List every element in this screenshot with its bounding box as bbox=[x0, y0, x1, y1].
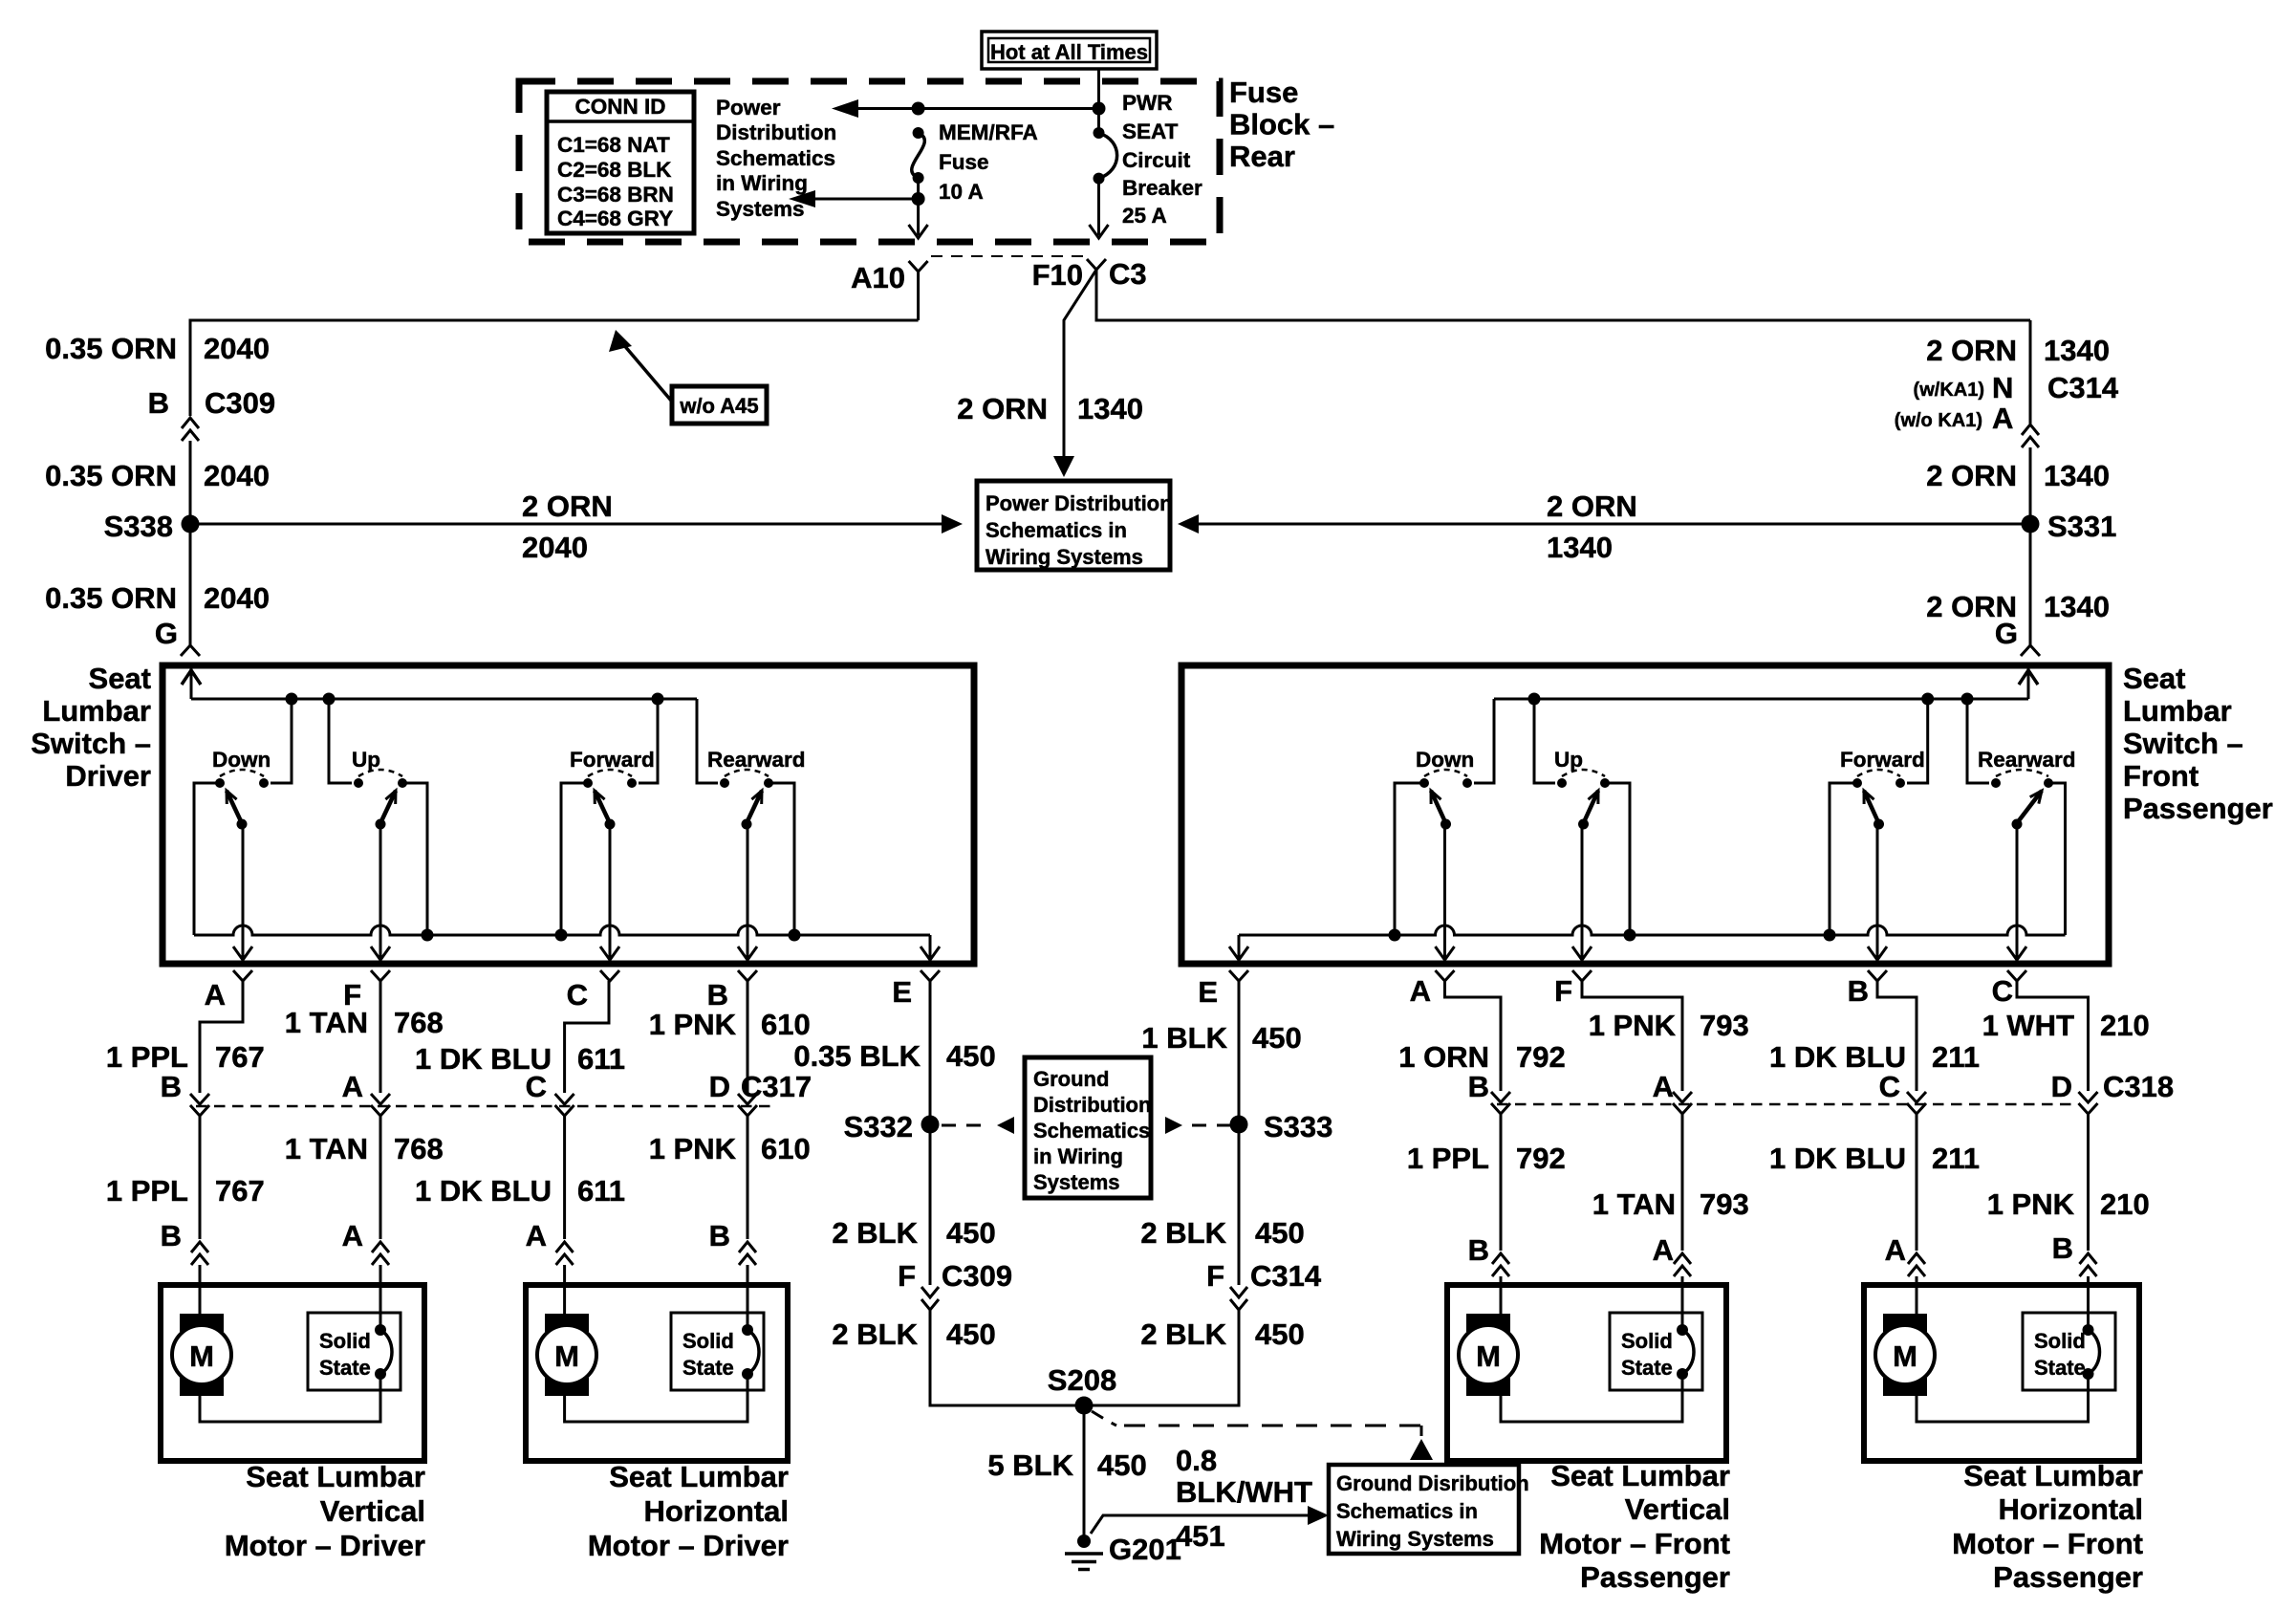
svg-text:1 PPL: 1 PPL bbox=[1407, 1142, 1489, 1175]
svg-text:C: C bbox=[526, 1070, 547, 1103]
svg-text:0.8: 0.8 bbox=[1176, 1444, 1217, 1477]
svg-text:Horizontal: Horizontal bbox=[643, 1494, 789, 1528]
wire E exit from bottom bus right end bbox=[929, 935, 932, 958]
svg-text:C2=68 BLK: C2=68 BLK bbox=[557, 158, 672, 182]
svg-text:C4=68 GRY: C4=68 GRY bbox=[557, 207, 673, 230]
svg-text:2040: 2040 bbox=[204, 459, 270, 492]
svg-text:Systems: Systems bbox=[1033, 1170, 1120, 1194]
svg-text:Power Distribution: Power Distribution bbox=[986, 491, 1173, 515]
fuse MEM/RFA 10A symbol bbox=[913, 127, 924, 139]
motor brushes bbox=[1883, 1314, 1927, 1332]
svg-text:2040: 2040 bbox=[522, 531, 588, 564]
svg-text:Schematics: Schematics bbox=[716, 146, 835, 170]
svg-text:M: M bbox=[1476, 1339, 1501, 1373]
arrowhead down into Power Distribution box bbox=[1053, 456, 1074, 477]
connector fork below passenger box x=2110 bbox=[2007, 970, 2026, 981]
svg-text:M: M bbox=[189, 1339, 214, 1373]
arrowhead right at Ground Disribution box bbox=[1308, 1506, 1329, 1525]
svg-text:Systems: Systems bbox=[716, 197, 805, 221]
circuit breaker PWR SEAT 25A symbol bbox=[1094, 127, 1105, 139]
switch Rearward pivot bbox=[2012, 819, 2023, 830]
motor bottom return wire bbox=[200, 1374, 380, 1422]
switch box inner bottom bus (with hops) bbox=[1239, 925, 2066, 935]
wire left rail C309 to G bbox=[189, 441, 192, 645]
dashed wire 451 from S208 to Ground Disribution pointer bbox=[1092, 1411, 1116, 1426]
svg-text:450: 450 bbox=[1252, 1021, 1302, 1055]
C318 crossing arrow+fork x=1570 bbox=[1491, 1092, 1510, 1102]
Seat Lumbar Horizontal Motor - Front Passenger box bbox=[1864, 1285, 2139, 1461]
switch box inner top bus bbox=[1494, 698, 2028, 701]
svg-text:10 A: 10 A bbox=[939, 180, 984, 204]
motor brushes bbox=[1466, 1314, 1510, 1332]
connector fork below passenger box x=1511.5 bbox=[1436, 970, 1455, 981]
svg-text:Forward: Forward bbox=[1840, 748, 1925, 772]
svg-text:210: 210 bbox=[2100, 1187, 2150, 1221]
svg-text:Lumbar: Lumbar bbox=[42, 694, 151, 728]
wire top bus right corner down to Rearward left contact bbox=[697, 699, 718, 783]
svg-text:1 PNK: 1 PNK bbox=[649, 1008, 737, 1041]
svg-text:B: B bbox=[709, 1219, 730, 1252]
connector fork below passenger box x=1655 bbox=[1572, 970, 1592, 981]
svg-text:C309: C309 bbox=[205, 386, 275, 420]
switch Down wiper arrow (up-left) bbox=[1431, 791, 1446, 823]
svg-text:C: C bbox=[1879, 1070, 1900, 1103]
fuse block dashed border (Fuse Block - Rear) bbox=[519, 81, 1220, 242]
svg-text:Motor – Front: Motor – Front bbox=[1539, 1527, 1730, 1560]
svg-text:5 BLK: 5 BLK bbox=[987, 1448, 1073, 1482]
entry wire into switch box bbox=[2027, 665, 2030, 699]
svg-text:211: 211 bbox=[1932, 1142, 1980, 1175]
solid state box bbox=[2023, 1313, 2115, 1390]
svg-text:1 PPL: 1 PPL bbox=[106, 1040, 188, 1074]
svg-text:BLK/WHT: BLK/WHT bbox=[1176, 1475, 1312, 1509]
svg-text:C: C bbox=[567, 978, 588, 1012]
switch Down: contacts bbox=[1419, 778, 1429, 788]
svg-text:1 PNK: 1 PNK bbox=[649, 1132, 737, 1165]
svg-text:2040: 2040 bbox=[204, 332, 270, 365]
svg-text:State: State bbox=[682, 1356, 734, 1380]
wire into solid state bbox=[747, 1285, 749, 1330]
wire right rail from F10 run down bbox=[2029, 320, 2032, 424]
motor pin connector x=782 bbox=[739, 1242, 756, 1265]
arrowhead at passenger box bottom exit x=1655 bbox=[1572, 947, 1592, 960]
svg-text:Rear: Rear bbox=[1229, 140, 1295, 173]
svg-text:610: 610 bbox=[761, 1008, 811, 1041]
svg-text:F: F bbox=[898, 1259, 916, 1293]
solid state box bbox=[308, 1313, 401, 1390]
svg-text:C309: C309 bbox=[942, 1259, 1012, 1293]
Seat Lumbar Horizontal Motor - Driver box bbox=[526, 1285, 788, 1461]
connector C318 dashed line bbox=[1497, 1103, 2076, 1106]
svg-text:Wiring Systems: Wiring Systems bbox=[986, 545, 1143, 569]
arrowhead left at Power Distribution box bbox=[1178, 514, 1199, 533]
svg-text:0.35 ORN: 0.35 ORN bbox=[45, 332, 177, 365]
svg-text:Solid: Solid bbox=[2034, 1329, 2086, 1353]
svg-text:1340: 1340 bbox=[1077, 392, 1143, 425]
switch Up: contacts bbox=[354, 778, 363, 788]
motor bottom return wire bbox=[1917, 1374, 2089, 1422]
switch Forward: contacts bbox=[1852, 778, 1862, 788]
svg-text:2040: 2040 bbox=[204, 581, 270, 615]
svg-text:D: D bbox=[709, 1070, 730, 1103]
motor M circle bbox=[1875, 1325, 1935, 1384]
svg-text:Passenger: Passenger bbox=[1993, 1560, 2143, 1594]
svg-text:S332: S332 bbox=[844, 1110, 913, 1143]
svg-text:C318: C318 bbox=[2103, 1070, 2174, 1103]
svg-text:C3=68 BRN: C3=68 BRN bbox=[557, 183, 674, 207]
svg-text:0.35 BLK: 0.35 BLK bbox=[793, 1039, 921, 1073]
wire Down left contact to bottom bus (passenger) bbox=[1395, 783, 1424, 935]
svg-text:N: N bbox=[1992, 371, 2013, 404]
svg-text:Seat: Seat bbox=[2123, 662, 2185, 695]
thin dashed connector line C3 between A10 and F10 bbox=[931, 255, 1084, 257]
svg-text:S208: S208 bbox=[1048, 1363, 1116, 1397]
svg-text:1 DK BLU: 1 DK BLU bbox=[1769, 1142, 1906, 1175]
svg-text:611: 611 bbox=[577, 1174, 625, 1208]
svg-text:Front: Front bbox=[2123, 759, 2199, 793]
connector fork below driver box x=398 bbox=[371, 970, 390, 981]
svg-text:450: 450 bbox=[1255, 1216, 1305, 1250]
svg-text:1 WHT: 1 WHT bbox=[1982, 1009, 2075, 1042]
svg-text:210: 210 bbox=[2100, 1009, 2150, 1042]
solid state box bbox=[671, 1313, 764, 1390]
svg-text:(w/KA1): (w/KA1) bbox=[1914, 380, 1984, 401]
dashed pointer Ground Distribution box to S333 bbox=[1192, 1124, 1230, 1127]
svg-text:Switch –: Switch – bbox=[2123, 727, 2243, 760]
svg-text:Up: Up bbox=[1554, 748, 1583, 772]
svg-text:Solid: Solid bbox=[682, 1329, 734, 1353]
wire fuse to A10 with branch arrow bbox=[917, 178, 920, 235]
motor M circle bbox=[1459, 1325, 1518, 1384]
svg-text:Forward: Forward bbox=[570, 748, 655, 772]
svg-text:Schematics in: Schematics in bbox=[1336, 1499, 1478, 1523]
inline connector C309 (left rail) bbox=[182, 418, 199, 441]
wire S331 arrow to Power Distribution box bbox=[1192, 523, 2030, 526]
svg-text:450: 450 bbox=[946, 1216, 996, 1250]
arrowhead at passenger box bottom exit x=2110 bbox=[2007, 947, 2026, 960]
switch Rearward dashed throw arc bbox=[725, 770, 769, 776]
wire B (1 DK BLU 211) jog down to C318 bbox=[1877, 981, 1917, 1091]
wire E (0.35 BLK 450) down to S332 bbox=[929, 981, 932, 1117]
svg-text:2 ORN: 2 ORN bbox=[522, 490, 613, 523]
connector fork below passenger box x=1964 bbox=[1868, 970, 1887, 981]
connector fork below driver box x=782 bbox=[738, 970, 757, 981]
svg-text:A: A bbox=[1410, 974, 1431, 1008]
motor pin connector x=2184.5 bbox=[2080, 1253, 2097, 1276]
svg-text:Motor – Driver: Motor – Driver bbox=[225, 1529, 425, 1562]
svg-text:1 PNK: 1 PNK bbox=[1589, 1009, 1677, 1042]
arrowhead at driver box bottom exit x=638 bbox=[600, 947, 619, 960]
svg-text:M: M bbox=[554, 1339, 579, 1373]
C318 crossing arrow+fork x=2005 bbox=[1907, 1092, 1926, 1102]
svg-text:768: 768 bbox=[394, 1006, 444, 1039]
svg-text:B: B bbox=[1848, 974, 1869, 1008]
splice S338 bbox=[182, 515, 200, 533]
switch Up pivot bbox=[1578, 819, 1589, 830]
svg-text:B: B bbox=[707, 978, 728, 1012]
svg-text:0.35 ORN: 0.35 ORN bbox=[45, 459, 177, 492]
svg-text:1340: 1340 bbox=[2044, 590, 2110, 623]
svg-text:25 A: 25 A bbox=[1122, 204, 1167, 228]
motor bottom return wire bbox=[565, 1374, 747, 1422]
bus wire with left arrow (to power distribution) bbox=[845, 107, 1099, 110]
wire breaker to F10 with arrowhead bbox=[1097, 179, 1100, 235]
splice S208 bbox=[1075, 1397, 1094, 1415]
C317 crossing arrow+fork x=590.6 bbox=[555, 1094, 574, 1104]
switch Rearward wiper arrow (up-right) bbox=[747, 791, 762, 823]
svg-text:211: 211 bbox=[1932, 1040, 1980, 1074]
svg-text:Distribution: Distribution bbox=[716, 120, 836, 144]
switch Rearward pivot bbox=[742, 819, 752, 830]
triangle pointing left at S332 bbox=[997, 1117, 1014, 1134]
svg-text:Seat Lumbar: Seat Lumbar bbox=[609, 1460, 789, 1493]
svg-text:A: A bbox=[1992, 402, 2013, 435]
svg-text:M: M bbox=[1893, 1339, 1917, 1373]
switch Up pivot bbox=[376, 819, 386, 830]
wire A (1 ORN 792) jog down to C318 bbox=[1445, 981, 1502, 1091]
switch Forward dashed throw arc bbox=[588, 770, 632, 776]
svg-text:A: A bbox=[1653, 1233, 1674, 1267]
wire bus riser to Forward right contact bbox=[1907, 699, 1928, 783]
svg-text:2 ORN: 2 ORN bbox=[1926, 334, 2017, 367]
svg-text:Fuse: Fuse bbox=[939, 150, 989, 174]
motor pin connector x=1760 bbox=[1674, 1253, 1691, 1276]
svg-text:1 TAN: 1 TAN bbox=[285, 1132, 368, 1165]
C317 crossing arrow+fork x=398 bbox=[371, 1094, 390, 1104]
wire C (1 WHT 210) jog down to C318 bbox=[2017, 981, 2089, 1091]
svg-text:2 BLK: 2 BLK bbox=[1140, 1216, 1226, 1250]
arrowhead at driver box bottom exit x=254 bbox=[233, 947, 252, 960]
driver box: pivot wires down to exits bbox=[242, 823, 245, 958]
entry wire into switch box bbox=[190, 665, 193, 699]
svg-text:611: 611 bbox=[577, 1042, 625, 1076]
svg-text:A10: A10 bbox=[851, 261, 905, 294]
svg-text:1 ORN: 1 ORN bbox=[1398, 1040, 1489, 1074]
solid state switch arc bbox=[1682, 1330, 1694, 1374]
w/o A45 box bbox=[672, 386, 767, 424]
junction on bus at MEM/RFA fuse bbox=[912, 102, 925, 116]
switch Rearward: contacts bbox=[720, 778, 729, 788]
wire into solid state bbox=[1681, 1285, 1684, 1330]
svg-text:A: A bbox=[205, 978, 226, 1012]
svg-text:in Wiring: in Wiring bbox=[716, 171, 808, 195]
switch Forward dashed throw arc bbox=[1857, 770, 1900, 776]
switch Up wiper arrow (up-right) bbox=[380, 791, 396, 823]
connector fork below passenger box x=1296 bbox=[1229, 970, 1248, 981]
svg-text:Breaker: Breaker bbox=[1122, 176, 1202, 200]
svg-text:0.35 ORN: 0.35 ORN bbox=[45, 581, 177, 615]
svg-text:793: 793 bbox=[1700, 1187, 1749, 1221]
switch Forward pivot bbox=[1874, 819, 1884, 830]
motor pin connector x=398 bbox=[372, 1242, 389, 1265]
svg-text:B: B bbox=[161, 1070, 182, 1103]
svg-text:State: State bbox=[2034, 1356, 2086, 1380]
arrowhead left on branch bbox=[789, 190, 815, 207]
wire Up right contact to bottom bus (passenger) bbox=[1605, 783, 1630, 935]
svg-text:792: 792 bbox=[1516, 1142, 1566, 1175]
svg-text:Schematics in: Schematics in bbox=[986, 518, 1127, 542]
wire F (1 TAN 768) down to C317 bbox=[379, 981, 382, 1093]
switch Forward wiper arrow (up-left) bbox=[595, 791, 610, 823]
motor pin connector x=590.6 bbox=[556, 1242, 574, 1265]
switch Down pivot bbox=[1440, 819, 1451, 830]
svg-text:2 ORN: 2 ORN bbox=[957, 392, 1048, 425]
connector fork below driver box x=973 bbox=[921, 970, 940, 981]
triangle pointing up at Ground Disribution box bbox=[1410, 1439, 1433, 1460]
svg-text:A: A bbox=[1653, 1070, 1674, 1103]
Seat Lumbar Switch - Driver box bbox=[162, 665, 974, 964]
wire into solid state bbox=[2087, 1285, 2090, 1330]
svg-text:D: D bbox=[2051, 1070, 2072, 1103]
svg-text:in Wiring: in Wiring bbox=[1033, 1144, 1123, 1168]
wire F (1 PNK 793) jog down to C318 bbox=[1582, 981, 1682, 1091]
svg-text:B: B bbox=[148, 386, 169, 420]
Seat Lumbar Vertical Motor - Driver box bbox=[161, 1285, 424, 1461]
svg-text:F: F bbox=[1206, 1259, 1224, 1293]
svg-text:A: A bbox=[342, 1219, 363, 1252]
Ground Distribution Schematics box (center) bbox=[1025, 1057, 1151, 1198]
motor brushes bbox=[180, 1314, 224, 1332]
svg-text:Passenger: Passenger bbox=[2123, 792, 2273, 825]
arrowhead at driver box bottom exit x=973 bbox=[921, 947, 940, 960]
svg-text:767: 767 bbox=[215, 1040, 265, 1074]
wire B (1 PNK 610) down to C317 bbox=[747, 981, 749, 1093]
svg-text:Power: Power bbox=[716, 96, 781, 120]
svg-text:450: 450 bbox=[1097, 1448, 1147, 1482]
svg-text:B: B bbox=[161, 1219, 182, 1252]
C318 crossing arrow+fork x=2184.5 bbox=[2079, 1092, 2098, 1102]
svg-text:Seat: Seat bbox=[89, 662, 151, 695]
wire F10 to right rail bbox=[1096, 270, 2030, 320]
solid state box bbox=[1610, 1313, 1702, 1390]
svg-text:Horizontal: Horizontal bbox=[1998, 1492, 2143, 1526]
svg-text:767: 767 bbox=[215, 1174, 265, 1208]
svg-text:Circuit: Circuit bbox=[1122, 148, 1191, 172]
svg-text:450: 450 bbox=[946, 1039, 996, 1073]
arrowhead right at Power Distribution box bbox=[942, 514, 963, 533]
svg-text:C314: C314 bbox=[2047, 371, 2119, 404]
second branch wire left arrow bbox=[802, 198, 919, 201]
svg-text:Distribution: Distribution bbox=[1033, 1093, 1151, 1117]
svg-text:State: State bbox=[1621, 1356, 1673, 1380]
wire bus riser to Rearward left contact bbox=[1967, 699, 1989, 783]
svg-text:F10: F10 bbox=[1032, 258, 1083, 292]
switch Down wiper arrow (up-left) bbox=[227, 791, 242, 823]
wire E exit from bottom bus left end (passenger) bbox=[1238, 935, 1241, 958]
wire A (1 PPL 767) jog down to C317 bbox=[200, 981, 243, 1093]
connector A10 bbox=[909, 261, 928, 272]
arrowhead at driver box bottom exit x=398 bbox=[371, 947, 390, 960]
switch Forward pivot bbox=[605, 819, 616, 830]
solid state switch arc bbox=[747, 1330, 759, 1374]
svg-text:(w/o KA1): (w/o KA1) bbox=[1895, 410, 1982, 431]
svg-text:C314: C314 bbox=[1250, 1259, 1322, 1293]
svg-text:1 DK BLU: 1 DK BLU bbox=[415, 1174, 552, 1208]
wire A10 top run to left rail bbox=[190, 320, 919, 416]
svg-text:450: 450 bbox=[946, 1317, 996, 1351]
arrowhead at passenger box bottom exit x=1511.5 bbox=[1436, 947, 1455, 960]
passenger box: pivot wires down to exits bbox=[1443, 823, 1446, 958]
switch Forward: contacts bbox=[583, 778, 593, 788]
C317 crossing arrow+fork x=209 bbox=[190, 1094, 209, 1104]
svg-text:Solid: Solid bbox=[1621, 1329, 1673, 1353]
wire Rearward right contact to bottom bus bbox=[769, 783, 794, 935]
wire S208 down to ground G201 bbox=[1083, 1405, 1086, 1537]
wire top bus left corner down to Down right contact bbox=[1474, 699, 1494, 783]
motor bottom return wire bbox=[1501, 1374, 1682, 1422]
svg-text:1 PNK: 1 PNK bbox=[1987, 1187, 2075, 1221]
wire into motor top brush bbox=[563, 1285, 566, 1314]
Seat Lumbar Vertical Motor - Front Passenger box bbox=[1447, 1285, 1726, 1461]
wire F10 slant down to power distribution box bbox=[1064, 270, 1096, 461]
motor M circle bbox=[537, 1325, 596, 1384]
wire right rail C314 to G bbox=[2029, 447, 2032, 645]
connector F10 / C3 bbox=[1087, 259, 1106, 270]
wire bus riser to Up left contact bbox=[329, 699, 352, 783]
svg-text:Driver: Driver bbox=[65, 759, 151, 793]
wire E (1 BLK 450) down to S333 bbox=[1238, 981, 1241, 1117]
wire Down left contact to bottom bus bbox=[194, 783, 220, 935]
inline connector C309 lower (double chevron down) bbox=[921, 1287, 939, 1310]
svg-text:SEAT: SEAT bbox=[1122, 120, 1179, 143]
svg-text:1340: 1340 bbox=[2044, 334, 2110, 367]
svg-text:2 BLK: 2 BLK bbox=[832, 1216, 918, 1250]
ground symbol G201 bbox=[1077, 1535, 1091, 1548]
wire bus riser to Up left contact bbox=[1534, 699, 1555, 783]
arrowhead at passenger box bottom exit x=1964 bbox=[1868, 947, 1887, 960]
arrowhead of w/o A45 annotation bbox=[609, 330, 632, 352]
svg-text:Seat Lumbar: Seat Lumbar bbox=[246, 1460, 425, 1493]
switch Down: contacts bbox=[215, 778, 225, 788]
svg-text:451: 451 bbox=[1176, 1519, 1225, 1553]
switch Down dashed throw arc bbox=[220, 770, 264, 776]
inline connector C314 (right rail) bbox=[2022, 425, 2039, 447]
svg-text:Rearward: Rearward bbox=[707, 748, 806, 772]
svg-text:1340: 1340 bbox=[1547, 531, 1613, 564]
dashed pointer S332 to Ground Distribution box bbox=[942, 1124, 986, 1127]
motor brushes bbox=[545, 1314, 589, 1332]
svg-text:State: State bbox=[319, 1356, 371, 1380]
wire Rearward right contact to bottom bus corner (passenger) bbox=[2048, 783, 2066, 935]
switch Up dashed throw arc bbox=[358, 770, 402, 776]
svg-text:Fuse: Fuse bbox=[1229, 76, 1298, 109]
switch Down dashed throw arc bbox=[1424, 770, 1467, 776]
svg-text:G: G bbox=[155, 617, 178, 650]
svg-text:2 ORN: 2 ORN bbox=[1547, 490, 1637, 523]
svg-text:Hot at All Times: Hot at All Times bbox=[990, 40, 1148, 64]
switch box inner top bus bbox=[191, 698, 697, 701]
wire Forward left contact to bottom bus bbox=[561, 783, 588, 935]
wire S332 down to F C309 bbox=[929, 1117, 932, 1285]
svg-text:C3: C3 bbox=[1109, 257, 1147, 291]
svg-text:Switch –: Switch – bbox=[31, 727, 151, 760]
wire S333 down to F C314 bbox=[1238, 1117, 1241, 1285]
solid state switch arc bbox=[380, 1330, 392, 1374]
svg-text:CONN ID: CONN ID bbox=[575, 95, 666, 119]
wire into motor top brush bbox=[1500, 1285, 1503, 1314]
splice S333 bbox=[1230, 1116, 1248, 1134]
svg-text:Vertical: Vertical bbox=[320, 1494, 425, 1528]
junction on bus at PWR SEAT breaker bbox=[1093, 102, 1106, 116]
arrowhead at driver box bottom exit x=782 bbox=[738, 947, 757, 960]
svg-text:610: 610 bbox=[761, 1132, 811, 1165]
svg-text:A: A bbox=[1885, 1233, 1906, 1267]
switch box inner bottom bus (with hops) bbox=[194, 925, 930, 935]
Hot at All Times box bbox=[982, 32, 1157, 69]
connector fork at G (passenger) bbox=[2021, 645, 2040, 656]
svg-text:S331: S331 bbox=[2047, 510, 2116, 543]
svg-text:G201: G201 bbox=[1109, 1533, 1181, 1566]
